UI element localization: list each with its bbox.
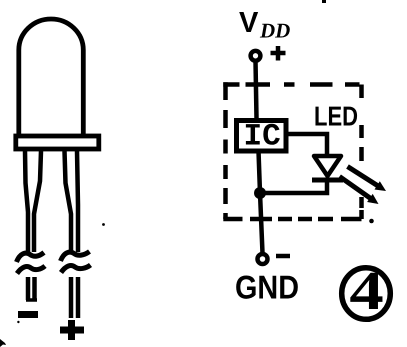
wire VDD to IC (256, 61, 257, 118)
dashed module boundary left edge (223, 82, 228, 219)
svg-text:DD: DD (259, 19, 290, 43)
svg-text:LED: LED (314, 101, 358, 132)
svg-text:IC: IC (244, 120, 281, 155)
cathode lead (left) (25, 151, 28, 252)
terminal GND (258, 254, 268, 264)
plus polarity at VDD (271, 46, 286, 61)
figure number 4 circle (342, 268, 391, 320)
minus polarity at GND (276, 254, 290, 259)
dashed module boundary top edge (223, 82, 359, 87)
wire IC to GND terminal (259, 151, 263, 253)
dashed module boundary right edge (359, 85, 364, 220)
junction node (254, 187, 266, 199)
LED D1 triangle (314, 156, 341, 176)
polarity label plus (anode) (60, 327, 84, 334)
break mark right lead (61, 252, 90, 262)
svg-text:4: 4 (349, 260, 383, 321)
polarity label minus (cathode) (18, 311, 38, 318)
svg-text:GND: GND (235, 269, 299, 306)
light emission arrow upper (348, 167, 382, 188)
wire IC to LED anode (286, 134, 327, 156)
stray speck right of leads (102, 223, 105, 226)
terminal VDD (251, 51, 261, 61)
svg-text:V: V (239, 7, 259, 39)
stray speck above minus (17, 321, 19, 323)
light emission arrow lower (340, 177, 374, 201)
break mark left lead (17, 253, 45, 263)
LED D1 cathode bar (312, 178, 343, 183)
anode lead (right) (65, 151, 72, 252)
IC U1 box (237, 121, 287, 152)
LED package flange (16, 136, 99, 149)
stray dot at bottom-right corner (369, 219, 374, 224)
wire LED cathode to node (260, 180, 327, 193)
stray scan mark top (322, 0, 326, 3)
LED package dome outline (19, 19, 84, 137)
dashed module boundary bottom edge (223, 217, 361, 222)
stray mark bottom-left corner (0, 339, 6, 347)
